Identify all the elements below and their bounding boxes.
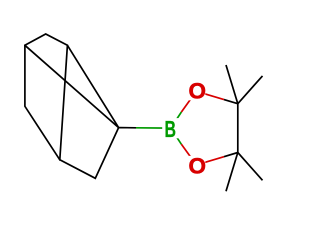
svg-text:O: O xyxy=(188,153,206,178)
svg-text:O: O xyxy=(188,79,206,104)
svg-text:B: B xyxy=(164,116,176,142)
